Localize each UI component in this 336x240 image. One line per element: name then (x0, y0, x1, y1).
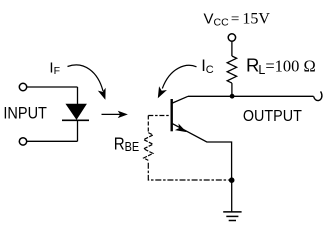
svg-text:RL=100 Ω: RL=100 Ω (246, 54, 316, 77)
IF current arrow (68, 65, 104, 91)
light arrow (102, 113, 121, 115)
emitter arrowhead (176, 125, 185, 132)
wire to ground (231, 180, 233, 212)
junction node collector (230, 94, 235, 99)
dashed base lead (148, 115, 170, 117)
LED D1 cathode bar (62, 119, 89, 121)
wire collector rail (188, 95, 314, 97)
resistor RL zigzag (227, 56, 236, 83)
wire LED anode (77, 87, 79, 104)
dashed RBE bottom lead (148, 163, 229, 180)
wire input bottom (27, 140, 78, 142)
svg-text:IF: IF (49, 60, 60, 78)
resistor RBE zigzag (144, 133, 153, 161)
wire LED cathode (77, 120, 79, 141)
svg-text:VCC=15V: VCC=15V (204, 10, 271, 28)
dashed RBE top lead (147, 116, 149, 133)
svg-text:OUTPUT: OUTPUT (243, 108, 302, 125)
wire input top (27, 86, 78, 88)
output hook terminal (314, 91, 322, 100)
svg-text:RBE: RBE (114, 133, 139, 154)
wire Vcc to RL (231, 41, 233, 56)
transistor Q1 collector lead (173, 96, 189, 103)
transistor Q1 base bar (170, 99, 172, 131)
IC current arrow (162, 65, 196, 88)
input terminal bottom (19, 138, 26, 145)
transistor Q1 emitter lead (173, 124, 232, 181)
svg-text:IC: IC (201, 57, 214, 76)
Vcc terminal (228, 34, 235, 41)
input terminal top (19, 83, 26, 90)
junction node emitter/ground (229, 177, 235, 183)
LED D1 triangle (66, 104, 86, 119)
svg-text:INPUT: INPUT (3, 104, 47, 122)
ground symbol (223, 211, 241, 213)
wire RL to rail (231, 83, 233, 96)
